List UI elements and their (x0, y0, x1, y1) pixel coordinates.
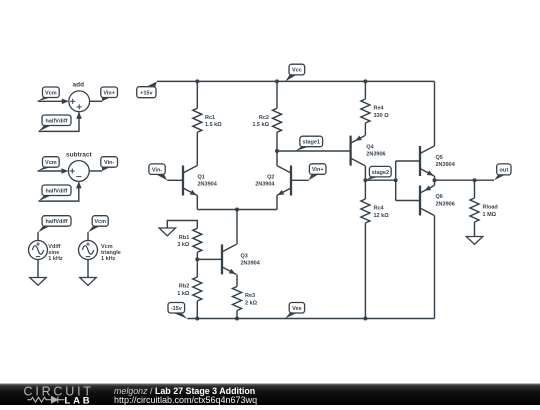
svg-text:stage1: stage1 (303, 140, 320, 146)
voltage source Vcm triangle 1 kHz (79, 241, 121, 263)
wire Q4 collector to stage2 (364, 166, 366, 181)
flag halfVdiff (add input) (39, 115, 72, 131)
ground (Rb1) (159, 228, 176, 236)
flag Vcm (subtract input) (38, 157, 60, 171)
wire stage2 to Rc4 (364, 180, 366, 199)
flag -15v (168, 303, 187, 319)
svg-text:2N3906: 2N3906 (436, 201, 455, 207)
transistor Q6 2N3906 (420, 185, 455, 215)
transistor Q5 2N3904 (420, 146, 456, 176)
wire halfVdiff to add bottom input (39, 112, 82, 132)
wire base node to Rb2 (196, 259, 198, 277)
svg-text:Q6: Q6 (436, 194, 443, 200)
node junction rail-Rc1 (195, 79, 199, 83)
wire to Q6 base (396, 200, 420, 202)
wire Vcm to add input (38, 99, 69, 105)
flag Vcm (source Vcm) (88, 216, 108, 233)
svg-text:Rload: Rload (483, 205, 498, 211)
wire Vdiff to ground (37, 260, 39, 278)
wire out to Q6 emitter (434, 180, 436, 185)
svg-text:add: add (73, 81, 85, 88)
resistor Rc2 1.5 kOhm (252, 108, 281, 132)
svg-text:Vin+: Vin+ (103, 90, 115, 96)
node junction emitters-Q3 (235, 208, 239, 212)
CircuitLab logo glyph resistor-diode (28, 397, 65, 403)
wire subtract output to Vin- (89, 170, 102, 172)
svg-text:2N3904: 2N3904 (198, 182, 218, 188)
svg-text:1 MΩ: 1 MΩ (483, 212, 497, 218)
svg-text:http://circuitlab.com/ctx56q4n: http://circuitlab.com/ctx56q4n673wq (114, 395, 257, 405)
svg-text:Vin-: Vin- (152, 167, 162, 173)
resistor Rb1 3 kOhm (177, 228, 202, 252)
node stage2 junction right (394, 178, 398, 182)
svg-text:1 kHz: 1 kHz (101, 256, 116, 262)
wire Rc1 to Q1 collector (196, 132, 198, 165)
flag Vcc (285, 64, 304, 81)
wire stage1 node to Q2 collector (276, 151, 278, 166)
transistor Q1 2N3904 (183, 166, 218, 196)
wire rail to Rc1 (196, 81, 198, 108)
svg-text:Re4: Re4 (374, 106, 385, 112)
flag out (494, 164, 511, 180)
svg-text:2N3906: 2N3906 (366, 152, 385, 158)
flag Vin- (subtract output) (101, 157, 118, 171)
wire halfVdiff flag to Vdiff source (37, 232, 39, 240)
node junction out-Rload (473, 178, 477, 182)
node stage2 junction left (363, 178, 367, 182)
wire Re4 to Q4 emitter (364, 123, 366, 136)
svg-text:2N3904: 2N3904 (241, 260, 261, 266)
svg-text:halfVdiff: halfVdiff (46, 188, 68, 194)
svg-text:Vcm: Vcm (94, 219, 106, 225)
svg-text:Q1: Q1 (198, 175, 205, 181)
svg-text:Q5: Q5 (436, 155, 443, 161)
svg-text:Rc4: Rc4 (374, 206, 385, 212)
wire Vcm flag to Vcm source (87, 232, 89, 240)
wire Q5 emitter to out (434, 176, 436, 180)
summing block U-add (69, 91, 90, 112)
svg-text:1.5 kΩ: 1.5 kΩ (252, 122, 269, 128)
svg-text:halfVdiff: halfVdiff (46, 118, 68, 124)
flag stage2 (366, 166, 391, 180)
voltage source Vdiff sine 1 kHz (29, 241, 63, 263)
wire stage2 vertical to bases (395, 161, 397, 201)
wire base node to Q3 base (197, 258, 222, 260)
svg-text:Rb2: Rb2 (179, 284, 189, 290)
ground (Vcm) (80, 278, 97, 286)
svg-text:2N3904: 2N3904 (255, 182, 275, 188)
wire out to Rload (474, 180, 476, 198)
resistor Rc4 12 kOhm (361, 199, 389, 223)
node junction rail-Rc2 (275, 79, 279, 83)
wire rail to Re4 (364, 81, 366, 99)
node junction Rb1-Rb2-Q3base (195, 257, 199, 261)
svg-text:Vcm: Vcm (45, 90, 57, 96)
wire stage2 horizontal (365, 179, 395, 181)
resistor Rb2 1 kOhm (177, 277, 202, 301)
svg-text:Vcm: Vcm (101, 244, 113, 250)
flag +15v (137, 81, 157, 97)
svg-text:LAB: LAB (65, 396, 93, 405)
resistor Rload 1 MOhm (470, 198, 498, 222)
svg-text:subtract: subtract (66, 152, 92, 159)
flag halfVdiff (source Vdiff) (38, 216, 71, 233)
flag Vin+ (Q2 base) (309, 164, 326, 180)
wire out line (435, 179, 495, 181)
wire Vcm to ground (87, 260, 89, 278)
svg-text:stage2: stage2 (372, 170, 389, 176)
flag stage1 (296, 136, 323, 151)
svg-text:2 kΩ: 2 kΩ (245, 300, 258, 306)
svg-text:+15v: +15v (140, 90, 153, 96)
wire add output to Vin+ (90, 100, 102, 102)
svg-text:Vdiff: Vdiff (48, 244, 60, 250)
wire Q3 emitter to Re3 (236, 274, 238, 286)
svg-text:Q2: Q2 (267, 175, 274, 181)
svg-text:Q3: Q3 (241, 253, 248, 259)
transistor Q2 2N3904 (255, 166, 291, 196)
flag Vin+ (add output) (101, 87, 118, 101)
svg-text:Re3: Re3 (245, 293, 255, 299)
flag Vee (285, 303, 305, 319)
wire Vin- to Q1 base (167, 179, 183, 181)
transistor Q3 2N3904 (222, 244, 261, 274)
summing block U-subtract (68, 161, 89, 182)
svg-text:halfVdiff: halfVdiff (46, 219, 68, 225)
wire halfVdiff to subtract bottom input (39, 181, 82, 201)
wire join to Q3 collector (236, 210, 238, 245)
wire Rb1 to base node (196, 252, 198, 259)
svg-text:Vee: Vee (292, 306, 301, 312)
wire Rc2 to stage1 node (276, 132, 278, 151)
flag halfVdiff (subtract input) (39, 185, 72, 201)
svg-text:1.5 kΩ: 1.5 kΩ (205, 122, 222, 128)
wire Re3 to rail (236, 311, 238, 319)
wire stage1 to Q4 base (277, 150, 351, 152)
svg-text:Vin-: Vin- (104, 160, 114, 166)
wire Q6 collector to rail (434, 216, 436, 319)
wire Vcm to subtract input (38, 168, 69, 174)
resistor Rc1 1.5 kOhm (193, 108, 222, 132)
svg-text:12 kΩ: 12 kΩ (374, 213, 390, 219)
svg-text:Vcm: Vcm (45, 160, 57, 166)
svg-text:Rc1: Rc1 (205, 115, 215, 121)
wire Rc4 to rail (364, 223, 366, 319)
node junction out-Q5Q6 (433, 178, 437, 182)
node junction rail-Rc4 (363, 317, 367, 321)
flag Vcm (add input) (38, 87, 60, 101)
wire to Q5 base (396, 160, 420, 162)
wire Rload to ground (474, 222, 476, 237)
svg-text:Rc2: Rc2 (259, 115, 269, 121)
svg-text:triangle: triangle (101, 250, 121, 256)
svg-text:Vcc: Vcc (292, 68, 302, 74)
ground (Vdiff) (30, 278, 47, 286)
svg-text:out: out (499, 168, 508, 174)
svg-text:Q4: Q4 (366, 145, 374, 151)
svg-text:1 kHz: 1 kHz (48, 256, 63, 262)
svg-text:-15v: -15v (171, 306, 183, 312)
transistor Q4 2N3906 (351, 136, 386, 166)
svg-text:Rb1: Rb1 (179, 235, 189, 241)
svg-text:sine: sine (48, 250, 59, 256)
wire ground stub to Rb1 (167, 221, 197, 229)
node junction rail-Re3 (235, 317, 239, 321)
svg-text:1 kΩ: 1 kΩ (177, 291, 190, 297)
svg-text:330 Ω: 330 Ω (374, 113, 390, 119)
wire Vee bottom rail (187, 318, 434, 320)
resistor Re3 2 kOhm (233, 287, 258, 311)
wire rail to Rc2 (276, 81, 278, 108)
wire emitter join (197, 209, 277, 211)
wire Q1 emitter down (196, 196, 198, 210)
node junction rail-Rb2 (195, 317, 199, 321)
svg-text:2N3904: 2N3904 (436, 162, 456, 168)
svg-text:3 kΩ: 3 kΩ (177, 242, 190, 248)
wire Vin+ to Q2 base (291, 179, 309, 181)
wire Q2 emitter down (276, 196, 278, 210)
footer bar (0, 384, 540, 406)
resistor Re4 330 Ohm (361, 99, 389, 123)
ground (Rload) (466, 237, 483, 245)
wire Vcc top rail (157, 80, 435, 82)
wire Rb2 to rail (196, 301, 198, 319)
wire Q5 collector to rail (434, 81, 436, 146)
node junction rail-Re4 (363, 79, 367, 83)
svg-text:Vin+: Vin+ (312, 167, 324, 173)
flag Vin- (Q1 base) (149, 164, 167, 180)
node stage1 junction (275, 149, 279, 153)
